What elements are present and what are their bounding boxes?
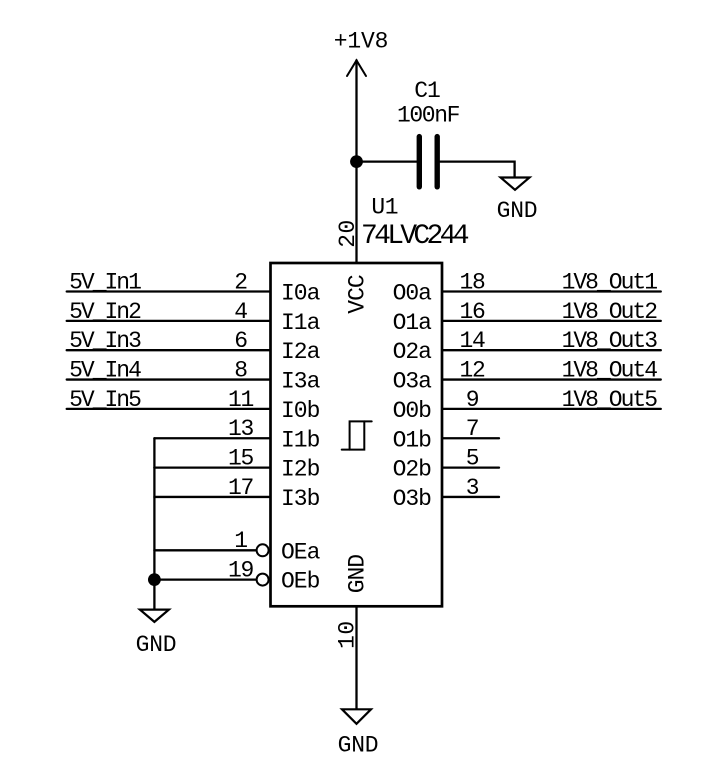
svg-text:O1a: O1a — [393, 310, 433, 336]
svg-text:10: 10 — [334, 620, 360, 649]
power flag +1V8 arrow — [347, 60, 366, 76]
svg-text:O0b: O0b — [393, 398, 432, 424]
svg-text:14: 14 — [459, 328, 485, 354]
ground symbol left — [140, 610, 169, 622]
svg-text:12: 12 — [459, 357, 485, 383]
svg-text:3: 3 — [466, 475, 479, 501]
svg-text:5V_In1: 5V_In1 — [69, 269, 141, 295]
ground symbol right — [501, 178, 530, 190]
svg-text:VCC: VCC — [345, 275, 371, 314]
svg-text:15: 15 — [228, 446, 254, 472]
node junction at VCC/C1 — [350, 155, 363, 168]
svg-text:O0a: O0a — [393, 281, 433, 307]
wire output 1V8_Out2 — [443, 320, 661, 322]
svg-text:I0b: I0b — [281, 398, 320, 424]
wire GND pin 10 — [355, 606, 357, 709]
wire VCC vertical — [355, 60, 357, 263]
wire tie bus vertical — [153, 438, 155, 609]
svg-text:I1b: I1b — [281, 427, 320, 453]
wire OEa — [154, 549, 256, 551]
svg-text:11: 11 — [228, 387, 254, 413]
wire input 5V_In1 — [67, 290, 269, 292]
svg-text:16: 16 — [459, 299, 485, 325]
svg-text:74LVC244: 74LVC244 — [361, 221, 469, 252]
svg-text:5V_In5: 5V_In5 — [69, 387, 141, 413]
svg-text:O2b: O2b — [393, 457, 432, 483]
wire output 1V8_Out1 — [443, 290, 661, 292]
svg-text:9: 9 — [466, 387, 479, 413]
wire output 1V8_Out4 — [443, 378, 661, 380]
svg-text:1: 1 — [234, 528, 247, 554]
svg-text:OEb: OEb — [281, 569, 320, 595]
svg-text:1V8_Out2: 1V8_Out2 — [562, 299, 658, 325]
svg-text:O3b: O3b — [393, 486, 432, 512]
wire pin 15 — [154, 466, 269, 468]
pin OEb inverter bubble — [257, 574, 269, 586]
op-amp U1 body (74LVC244 buffer IC) — [271, 263, 443, 606]
svg-text:17: 17 — [228, 475, 253, 501]
wire output 1V8_Out3 — [443, 349, 661, 351]
svg-text:20: 20 — [335, 219, 361, 248]
svg-text:19: 19 — [228, 558, 254, 584]
wire input 5V_In4 — [67, 378, 269, 380]
wire pin 5 — [443, 466, 499, 468]
svg-text:GND: GND — [497, 198, 538, 224]
wire pin 7 — [443, 437, 499, 439]
svg-text:5V_In4: 5V_In4 — [69, 357, 141, 383]
svg-text:I2a: I2a — [281, 339, 321, 365]
svg-text:5V_In3: 5V_In3 — [69, 328, 141, 354]
wire pin 17 — [154, 496, 269, 498]
svg-text:8: 8 — [234, 357, 247, 383]
svg-text:I3b: I3b — [281, 486, 320, 512]
wire input 5V_In5 — [67, 408, 269, 410]
svg-text:2: 2 — [234, 269, 247, 295]
svg-text:1V8_Out3: 1V8_Out3 — [562, 328, 658, 354]
svg-text:OEa: OEa — [281, 539, 321, 565]
wire input 5V_In3 — [67, 349, 269, 351]
node junction OEb/GND — [148, 573, 161, 586]
svg-text:5: 5 — [466, 446, 479, 472]
svg-text:7: 7 — [466, 416, 479, 442]
svg-text:13: 13 — [228, 416, 254, 442]
svg-text:18: 18 — [459, 269, 485, 295]
svg-text:U1: U1 — [371, 195, 398, 221]
svg-text:I0a: I0a — [281, 281, 321, 307]
svg-text:1V8_Out5: 1V8_Out5 — [562, 387, 658, 413]
wire pin 3 — [443, 496, 499, 498]
svg-text:5V_In2: 5V_In2 — [69, 299, 141, 325]
wire OEb — [154, 578, 256, 580]
svg-text:GND: GND — [136, 632, 177, 658]
wire C1 to GND — [440, 162, 515, 178]
svg-text:GND: GND — [338, 732, 379, 758]
svg-text:I1a: I1a — [281, 310, 321, 336]
wire junction to C1 — [357, 160, 417, 162]
pin OEa inverter bubble — [257, 544, 269, 556]
svg-text:1V8_Out4: 1V8_Out4 — [562, 357, 658, 383]
svg-text:6: 6 — [234, 328, 247, 354]
svg-text:100nF: 100nF — [397, 103, 460, 129]
schmitt hysteresis glyph inside U1 — [342, 421, 372, 449]
capacitor C1 — [419, 137, 437, 187]
wire output 1V8_Out5 — [443, 408, 661, 410]
wire pin 13 — [154, 437, 269, 439]
svg-text:O1b: O1b — [393, 427, 432, 453]
svg-text:I2b: I2b — [281, 457, 320, 483]
svg-text:+1V8: +1V8 — [334, 28, 388, 54]
svg-text:4: 4 — [234, 299, 247, 325]
ground symbol bottom — [342, 709, 371, 724]
svg-text:I3a: I3a — [281, 369, 321, 395]
svg-text:O2a: O2a — [393, 339, 433, 365]
svg-text:C1: C1 — [414, 78, 440, 104]
svg-text:GND: GND — [345, 555, 371, 594]
svg-text:1V8_Out1: 1V8_Out1 — [562, 269, 658, 295]
wire input 5V_In2 — [67, 320, 269, 322]
svg-text:O3a: O3a — [393, 369, 433, 395]
